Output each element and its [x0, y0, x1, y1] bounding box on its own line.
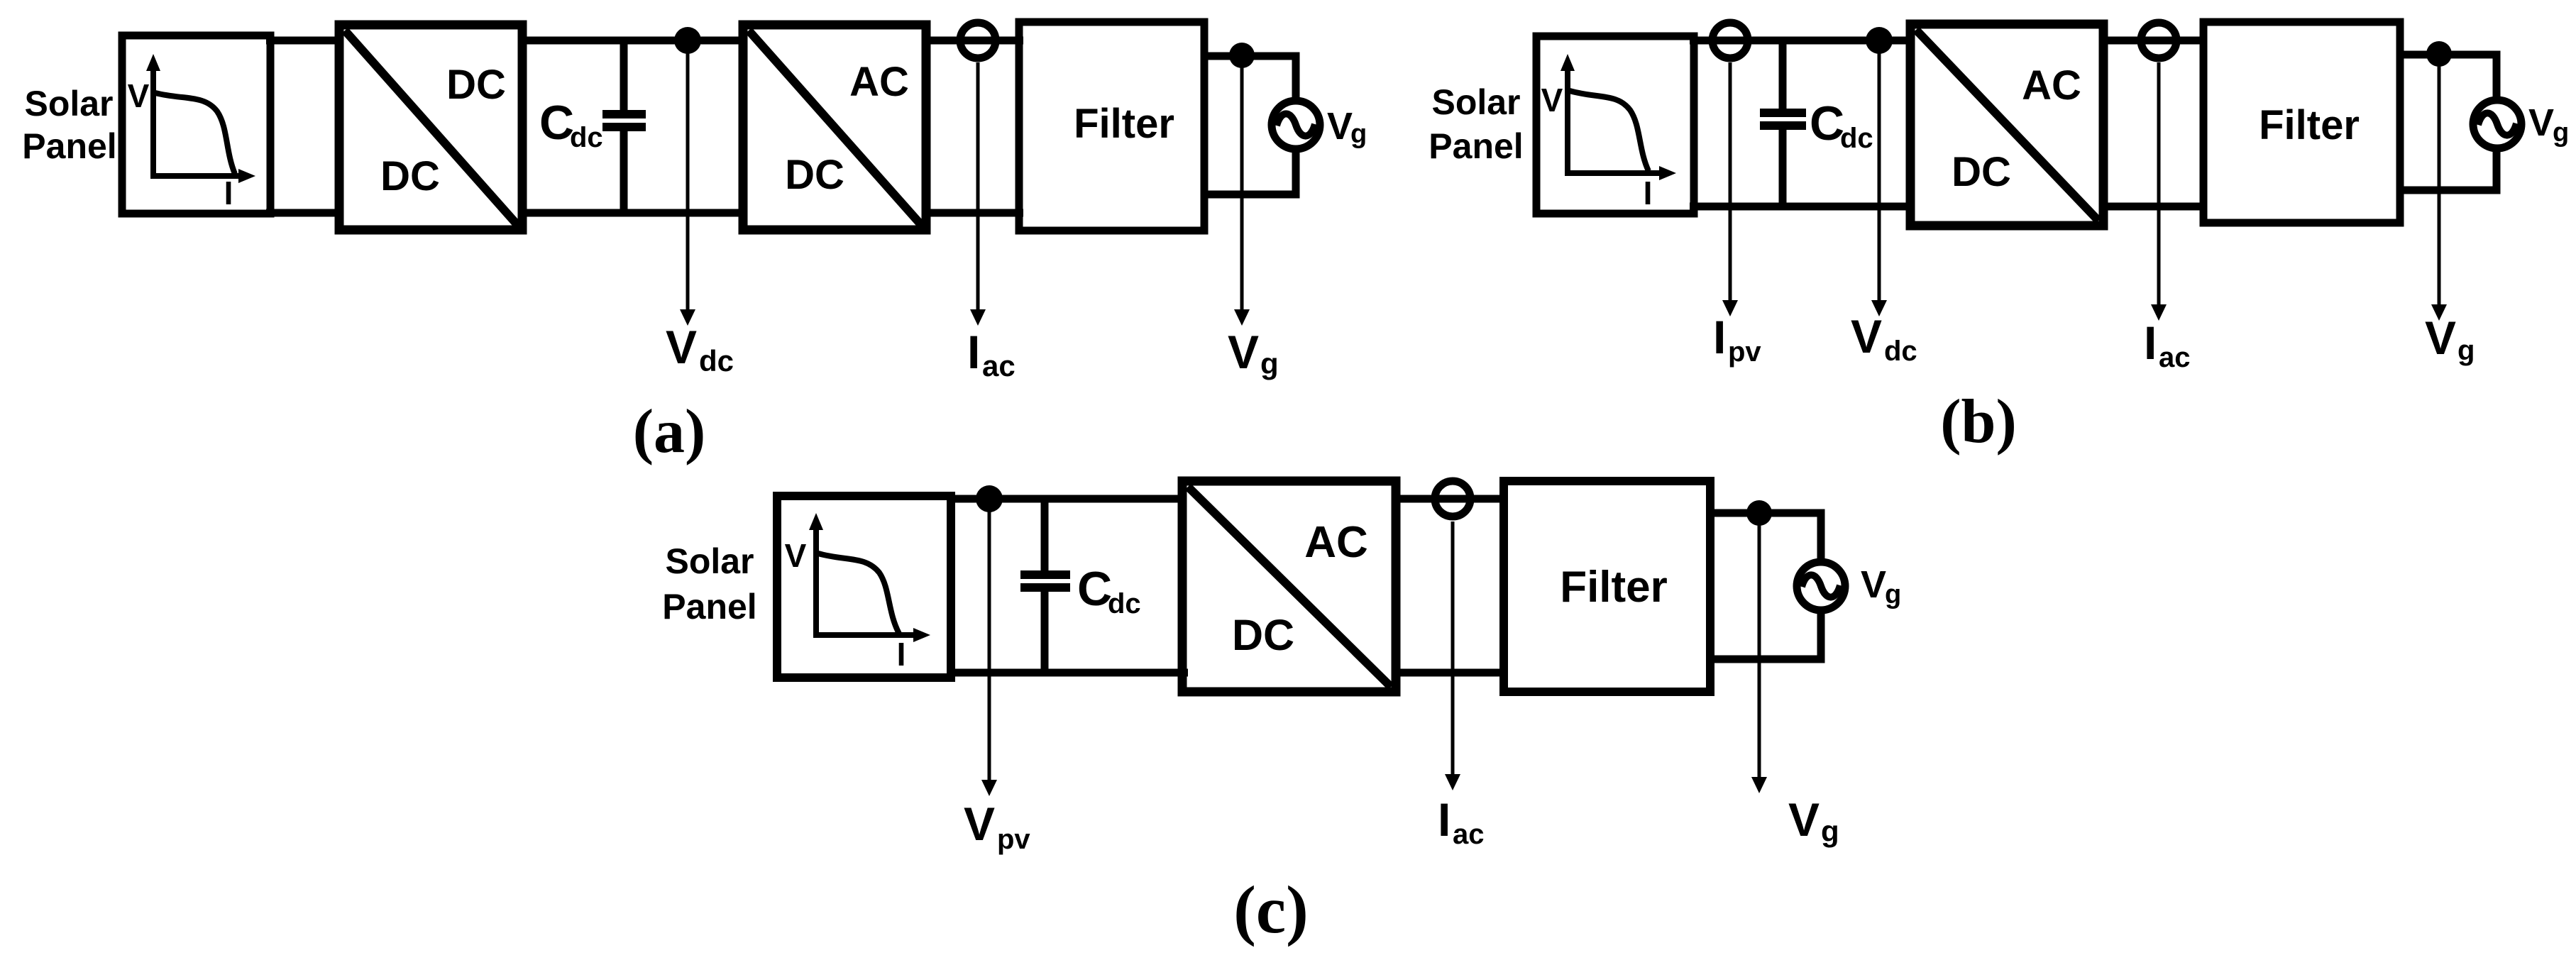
- svg-text:V: V: [1327, 105, 1353, 148]
- svg-text:dc: dc: [1840, 123, 1873, 154]
- svg-text:V: V: [1861, 563, 1886, 606]
- label Ipv (b): [1713, 311, 1761, 368]
- wire solar panel to DC/AC top (c): [947, 495, 1187, 503]
- svg-text:dc: dc: [570, 122, 603, 153]
- DC/AC inverter block (c): [1182, 481, 1396, 692]
- solar IV curve (b): [1570, 91, 1648, 171]
- value label Cdc (c): [1077, 562, 1141, 619]
- current sensor Iac circle (b): [2141, 23, 2176, 58]
- svg-text:Solar: Solar: [665, 541, 754, 581]
- label Vg (b): [2425, 311, 2475, 366]
- svg-text:g: g: [2457, 335, 2475, 366]
- solar IV curve (a): [155, 93, 235, 174]
- svg-text:C: C: [539, 96, 574, 150]
- wire DC/AC to filter bottom (c): [1396, 669, 1507, 677]
- label Vg source (b): [2528, 101, 2569, 148]
- svg-text:V: V: [1541, 82, 1563, 118]
- wire filter to grid top (c): [1710, 513, 1821, 563]
- current sensor Ipv circle (b): [1712, 23, 1748, 58]
- wire DC/DC to DC/AC top (a): [522, 37, 747, 45]
- svg-text:C: C: [1077, 562, 1112, 616]
- AC source Vg (b): [2473, 100, 2521, 148]
- Vg measurement arrow (a): [1234, 55, 1250, 326]
- Vg measurement arrow (b): [2431, 54, 2447, 321]
- svg-text:ac: ac: [982, 349, 1015, 382]
- svg-text:Panel: Panel: [662, 587, 756, 627]
- svg-text:AC: AC: [2022, 62, 2081, 109]
- Iac measurement arrow (a): [970, 62, 986, 326]
- node Vpv junction dot (c): [976, 485, 1003, 512]
- svg-text:V: V: [2425, 311, 2456, 364]
- svg-text:Panel: Panel: [22, 126, 116, 166]
- svg-text:DC: DC: [1952, 149, 2011, 195]
- svg-text:DC: DC: [1232, 611, 1294, 659]
- svg-text:DC: DC: [446, 62, 506, 108]
- label Vdc (b): [1851, 310, 1917, 367]
- svg-text:Filter: Filter: [2259, 102, 2360, 148]
- svg-text:V: V: [2528, 101, 2554, 144]
- label Solar Panel (b): [1429, 82, 1523, 166]
- wire solar panel to DC/DC top (a): [266, 37, 343, 45]
- Vg measurement arrow (c): [1751, 513, 1767, 793]
- svg-text:Solar: Solar: [1431, 82, 1520, 122]
- DC/AC inverter block (a): [743, 25, 926, 230]
- label Vg (a): [1228, 326, 1279, 380]
- label Solar Panel (a): [22, 84, 116, 166]
- svg-text:(a): (a): [633, 397, 706, 466]
- current sensor Iac circle (c): [1435, 481, 1470, 517]
- svg-text:pv: pv: [1728, 336, 1761, 368]
- svg-text:V: V: [785, 537, 807, 574]
- label Vg (c): [1788, 793, 1839, 848]
- svg-text:pv: pv: [997, 824, 1030, 855]
- label Vg source (a): [1327, 105, 1367, 149]
- capacitor Cdc (c): [1020, 499, 1070, 673]
- solar IV curve axes (c): [809, 513, 930, 642]
- current sensor Iac circle (a): [960, 23, 996, 58]
- wire solar panel to DC/AC bottom (c): [947, 669, 1188, 677]
- svg-text:Panel: Panel: [1429, 126, 1523, 166]
- svg-text:g: g: [1350, 119, 1367, 149]
- node Vdc junction dot (a): [674, 27, 701, 54]
- svg-text:(b): (b): [1940, 387, 2017, 456]
- filter block (b): [2203, 22, 2400, 223]
- svg-text:AC: AC: [1304, 518, 1368, 567]
- filter block (a): [1019, 22, 1204, 231]
- label Iac (a): [967, 326, 1015, 382]
- solar panel box (a): [122, 35, 270, 214]
- capacitor Cdc (a): [602, 40, 646, 213]
- svg-text:I: I: [1644, 175, 1653, 211]
- svg-text:g: g: [2553, 118, 2569, 148]
- Ipv measurement arrow (b): [1722, 62, 1738, 316]
- wire filter to grid bottom (b): [2400, 149, 2497, 190]
- svg-text:g: g: [1885, 580, 1901, 609]
- svg-text:dc: dc: [1884, 336, 1917, 367]
- AC source Vg (c): [1797, 562, 1845, 610]
- label Vpv (c): [964, 798, 1030, 855]
- wire filter to grid bottom (a): [1204, 149, 1296, 194]
- svg-text:Solar: Solar: [24, 84, 113, 123]
- wire solar panel to DC/DC bottom (a): [266, 209, 343, 217]
- AC source Vg (a): [1272, 101, 1320, 149]
- filter block (c): [1504, 481, 1710, 692]
- node Vg junction dot (a): [1229, 43, 1255, 68]
- svg-text:DC: DC: [785, 152, 844, 198]
- svg-text:I: I: [224, 175, 233, 211]
- Iac measurement arrow (b): [2151, 62, 2167, 321]
- solar IV curve axes (b): [1561, 54, 1676, 180]
- node Vdc junction dot (b): [1866, 27, 1893, 54]
- label Iac (b): [2144, 316, 2191, 373]
- wire filter to grid bottom (c): [1710, 610, 1821, 659]
- svg-text:V: V: [964, 798, 995, 850]
- svg-text:C: C: [1810, 96, 1844, 150]
- svg-text:V: V: [666, 321, 697, 373]
- svg-text:(c): (c): [1233, 872, 1308, 947]
- svg-text:DC: DC: [380, 153, 440, 199]
- wire solar panel to DC/AC top (b): [1690, 37, 1915, 45]
- wire solar panel to DC/AC bottom (b): [1690, 203, 1915, 211]
- solar IV curve axes (a): [146, 54, 255, 183]
- svg-text:I: I: [2144, 316, 2157, 369]
- svg-text:Filter: Filter: [1074, 101, 1174, 147]
- svg-text:dc: dc: [699, 344, 734, 377]
- svg-text:g: g: [1821, 815, 1839, 848]
- wire DC/AC to filter bottom (b): [2103, 203, 2207, 211]
- DC/DC converter block (a): [339, 25, 522, 230]
- solar panel box (c): [777, 496, 951, 678]
- svg-text:ac: ac: [1453, 819, 1485, 850]
- node Vg junction dot (c): [1746, 500, 1772, 526]
- label Iac (c): [1438, 793, 1485, 850]
- wire DC/AC to filter top (b): [2103, 37, 2207, 45]
- svg-text:V: V: [128, 77, 150, 114]
- svg-text:V: V: [1788, 793, 1820, 846]
- svg-text:AC: AC: [849, 59, 909, 105]
- label Vdc (a): [666, 321, 734, 377]
- Iac measurement arrow (c): [1445, 522, 1460, 790]
- svg-text:dc: dc: [1108, 588, 1141, 619]
- svg-text:I: I: [967, 326, 980, 378]
- Vdc measurement arrow (b): [1871, 40, 1887, 316]
- label Solar Panel (c): [662, 541, 756, 627]
- wire DC/DC to DC/AC bottom (a): [522, 209, 747, 217]
- Vpv measurement arrow (c): [981, 499, 997, 796]
- solar IV curve (c): [818, 553, 899, 634]
- svg-text:g: g: [1260, 347, 1279, 380]
- svg-text:I: I: [1438, 793, 1451, 846]
- wire DC/AC to filter top (c): [1396, 495, 1507, 503]
- svg-text:ac: ac: [2159, 342, 2191, 373]
- svg-text:I: I: [897, 636, 906, 673]
- wire filter to grid top (a): [1204, 56, 1296, 101]
- wire DC/AC to filter top (a): [926, 37, 1023, 45]
- svg-text:V: V: [1228, 326, 1259, 378]
- node Vg junction dot (b): [2426, 41, 2452, 67]
- svg-text:V: V: [1851, 310, 1882, 363]
- solar panel box (b): [1536, 36, 1694, 214]
- value label Cdc (a): [539, 96, 603, 153]
- wire DC/AC to filter bottom (a): [926, 209, 1023, 217]
- wire filter to grid top (b): [2400, 55, 2497, 101]
- capacitor Cdc (b): [1760, 40, 1806, 206]
- DC/AC inverter block (b): [1910, 24, 2103, 226]
- Vdc measurement arrow (a): [680, 40, 695, 326]
- value label Cdc (b): [1810, 96, 1873, 154]
- svg-text:Filter: Filter: [1560, 563, 1668, 612]
- svg-text:I: I: [1713, 311, 1726, 363]
- label Vg source (c): [1861, 563, 1901, 609]
